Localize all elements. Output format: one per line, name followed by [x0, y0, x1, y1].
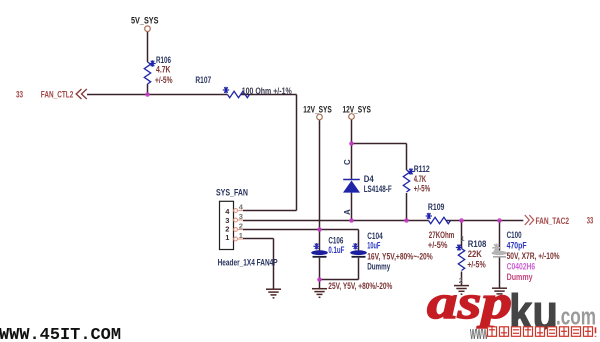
svg-text:12V_SYS: 12V_SYS — [343, 105, 371, 115]
svg-text:33: 33 — [587, 216, 594, 226]
svg-text:12V_SYS: 12V_SYS — [303, 105, 331, 115]
junction dot FAN_CTL2/R106 — [145, 92, 150, 97]
wire pin1 — [243, 238, 274, 240]
ground R108 — [454, 286, 469, 295]
wire 12V left down — [319, 120, 321, 230]
svg-text:5V_SYS: 5V_SYS — [131, 16, 159, 26]
svg-text:R106: R106 — [156, 55, 171, 65]
ground C106 — [312, 289, 327, 298]
svg-text:R112: R112 — [414, 164, 430, 174]
wire C104 bottom lead — [358, 258, 360, 280]
svg-text:27KOhm: 27KOhm — [429, 230, 455, 240]
wire R109 to FAN_TAC2 chevron — [446, 220, 523, 222]
wire R106 to FAN_CTL2 line — [147, 84, 149, 95]
svg-text:+/-5%: +/-5% — [428, 240, 448, 250]
power 5V_SYS — [131, 16, 159, 32]
svg-text:D4: D4 — [364, 174, 374, 184]
svg-text:100 Ohm +/-1%: 100 Ohm +/-1% — [242, 86, 292, 96]
pin stubs — [234, 209, 243, 241]
svg-text:22K: 22K — [468, 249, 482, 259]
wire C106 top lead — [319, 230, 321, 251]
svg-text:0.1uF: 0.1uF — [328, 245, 344, 255]
junction dot C106 bottom — [317, 277, 322, 282]
svg-text:R108: R108 — [468, 239, 487, 249]
wire corner down to pin4 — [296, 95, 298, 211]
wire pin1 down to ground — [273, 239, 275, 290]
ground C100 — [492, 288, 507, 297]
wire ground stub C106 — [319, 280, 321, 289]
svg-text:1: 1 — [239, 231, 243, 240]
wire R107 right to corner — [241, 94, 297, 96]
wire C100 top lead — [499, 221, 501, 251]
wire R108 top lead — [461, 221, 463, 249]
svg-text:FAN_CTL2: FAN_CTL2 — [41, 90, 74, 100]
pin numbers outside — [239, 202, 244, 240]
svg-text:Dummy: Dummy — [367, 262, 390, 272]
svg-text:+/-5%: +/-5% — [467, 260, 486, 270]
svg-text:SYS_FAN: SYS_FAN — [216, 188, 248, 198]
power 12V_SYS right — [343, 105, 371, 120]
junction dot R112 on bus — [404, 218, 409, 223]
svg-text:10uF: 10uF — [367, 241, 381, 251]
svg-text:+/-5%: +/-5% — [414, 183, 431, 193]
svg-text:470pF: 470pF — [507, 241, 527, 251]
svg-text:+/-5%: +/-5% — [155, 75, 173, 85]
junction dot R108 on bus — [459, 218, 464, 223]
wire FAN_CTL2 horizontal — [87, 94, 228, 96]
wire pin4 — [243, 210, 297, 212]
wire tach bus pin3 to R109 — [243, 220, 429, 222]
watermark aspku logo — [427, 276, 596, 341]
svg-text:4: 4 — [225, 207, 230, 216]
svg-text:C0402H6: C0402H6 — [507, 262, 535, 272]
svg-text:1: 1 — [225, 233, 229, 242]
junction dot diode anode on bus — [349, 218, 354, 223]
svg-text:4.7K: 4.7K — [156, 65, 171, 75]
wire 12V branch horizontal to R112 — [352, 143, 407, 145]
svg-text:50V, X7R, +/-10%: 50V, X7R, +/-10% — [507, 251, 560, 261]
wire pin2 line down to C104 — [358, 230, 360, 251]
wire pin2 12V line — [243, 229, 359, 231]
svg-text:16V, Y5V,+80%~-20%: 16V, Y5V,+80%~-20% — [367, 252, 433, 262]
svg-text:Header_1X4 FAN4P: Header_1X4 FAN4P — [218, 258, 278, 268]
svg-text:asp: asp — [427, 276, 512, 329]
wire cap bottom rail — [320, 279, 359, 281]
power 12V_SYS left — [303, 105, 331, 120]
junction dot 12V right branch — [349, 141, 354, 146]
wire 5V_SYS to R106 — [147, 32, 149, 63]
svg-text:33: 33 — [16, 90, 23, 100]
svg-text:25V, Y5V, +80%/-20%: 25V, Y5V, +80%/-20% — [328, 281, 392, 291]
wire R112 bottom lead — [406, 193, 408, 221]
wire C106 bottom lead — [319, 258, 321, 280]
svg-text:R109: R109 — [428, 202, 445, 212]
svg-text:C106: C106 — [328, 236, 343, 246]
svg-text:A: A — [343, 209, 352, 215]
svg-text:2: 2 — [239, 221, 243, 230]
svg-text:WWW.45IT.COM: WWW.45IT.COM — [0, 326, 121, 342]
svg-text:2: 2 — [225, 224, 229, 233]
svg-text:R107: R107 — [195, 75, 211, 85]
ground pin1 — [266, 289, 281, 298]
wire diode anode to bus — [351, 193, 353, 221]
watermark red chinese text — [470, 326, 596, 342]
wire R112 top lead — [406, 144, 408, 171]
svg-text:C100: C100 — [507, 230, 522, 240]
svg-text:C: C — [343, 159, 352, 165]
wire C100 bottom lead — [499, 258, 501, 289]
svg-text:WWW: WWW — [470, 326, 488, 342]
svg-text:C104: C104 — [367, 231, 383, 241]
svg-text:LS4148-F: LS4148-F — [364, 184, 392, 194]
svg-text:1: 1 — [460, 234, 464, 243]
svg-text:FAN_TAC2: FAN_TAC2 — [536, 216, 570, 226]
wire R108 bottom lead — [461, 272, 463, 286]
junction dot C100 on bus — [497, 218, 502, 223]
junction dot 12V/pin2/C106 — [317, 227, 322, 232]
wire 12V right down — [351, 119, 353, 179]
svg-text:3: 3 — [239, 212, 243, 221]
